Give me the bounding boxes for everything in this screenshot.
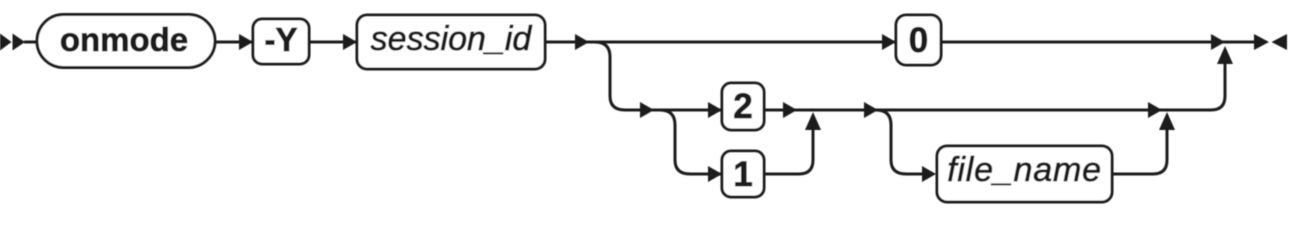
keyword box onmode <box>37 15 215 68</box>
start symbol arrow 1 <box>0 34 12 51</box>
arrow up merge to row1 <box>1217 46 1233 64</box>
wire row3 merge up after 1 <box>764 126 813 174</box>
arrow before -Y <box>239 34 253 50</box>
wire row2 main <box>625 109 878 112</box>
wire branch down to file_name <box>876 110 906 174</box>
keyword box 1 <box>722 151 764 197</box>
variable box file_name <box>937 146 1112 202</box>
start symbol arrow 2 <box>13 34 26 51</box>
keyword box 0 <box>896 15 941 65</box>
arrow after 2 <box>783 102 797 118</box>
arrow row1 end <box>1211 34 1225 50</box>
svg-text:session_id: session_id <box>371 20 533 58</box>
arrow row2 start <box>640 102 654 118</box>
svg-text:1: 1 <box>733 155 752 194</box>
svg-text:onmode: onmode <box>60 21 188 58</box>
wire branch down after session_id <box>595 42 625 110</box>
wire row2 bypass over file_name <box>878 109 1211 112</box>
wire file_name row segment <box>906 173 922 176</box>
arrow row2 before file branch end <box>864 102 878 118</box>
arrow before file_name <box>922 166 936 182</box>
variable box session_id <box>357 15 545 69</box>
keyword box 2 <box>722 83 764 130</box>
arrow up merge 1-2 <box>805 112 821 130</box>
wire row1 main <box>24 41 1256 44</box>
svg-text:file_name: file_name <box>947 151 1102 189</box>
svg-text:-Y: -Y <box>265 21 298 58</box>
wire row2 end merge up to row1 <box>1211 58 1225 110</box>
end symbol arrow right <box>1254 34 1269 50</box>
keyword box -Y <box>253 19 309 64</box>
svg-text:0: 0 <box>909 21 928 60</box>
wire row2 after merge <box>797 109 878 112</box>
svg-text:2: 2 <box>733 87 752 126</box>
arrow up merge file_name <box>1159 112 1175 130</box>
wire row3 segment to 1 <box>690 173 764 176</box>
wire file_name merge up <box>1112 126 1167 174</box>
arrow after session_id <box>575 34 589 50</box>
arrow before 0 <box>882 34 896 50</box>
end symbol arrow left <box>1272 34 1288 50</box>
arrow before 1 <box>708 166 722 182</box>
arrow row2 end <box>1148 102 1162 118</box>
wire branch down to row3 (1) <box>660 110 690 174</box>
arrow before session_id <box>343 34 357 50</box>
arrow before 2 <box>708 102 722 118</box>
